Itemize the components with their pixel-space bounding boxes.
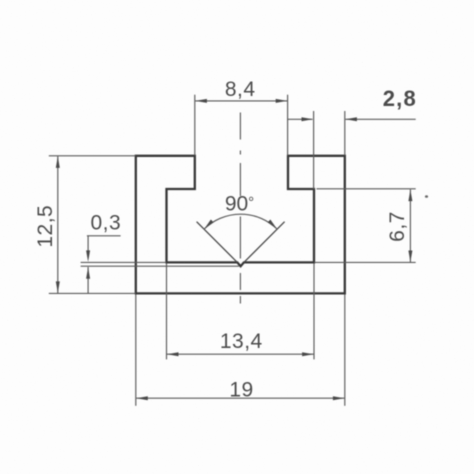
scan speck xyxy=(425,195,428,198)
extension line bottom for 12,5 xyxy=(49,292,136,294)
upper arrow stem for 0,3 xyxy=(87,236,89,252)
V-groove right flank line xyxy=(244,222,285,263)
extension line right for 19 xyxy=(344,295,346,406)
dimension value 6,7 xyxy=(386,211,409,242)
arrowhead 13,4 left xyxy=(167,352,179,356)
extension line right of slot width 8,4 xyxy=(287,95,289,156)
dimension line 12,5 xyxy=(57,156,59,293)
dimension line 6,7 xyxy=(409,190,411,263)
extension line left for 13,4 xyxy=(166,264,168,360)
angle dimension arc 90 degrees xyxy=(204,214,278,229)
dimension value 12,5 xyxy=(34,205,57,248)
arrowhead 6,7 top xyxy=(408,190,412,202)
arrowhead 0,3 upper xyxy=(86,250,90,262)
extension line top for 6,7 xyxy=(317,188,416,190)
centre line dash 5 xyxy=(239,273,241,290)
extension line right for 13,4 xyxy=(313,264,315,360)
dimension line 19 xyxy=(136,397,344,399)
lower arrow stem for 0,3 xyxy=(87,267,89,293)
centre line dash 4 xyxy=(239,217,241,259)
extension line outer edge for 2,8 xyxy=(344,111,346,155)
centre line dash 2 xyxy=(239,151,241,155)
centre line dash 6 xyxy=(239,296,241,304)
extension line inner wall for 2,8 xyxy=(313,111,315,189)
V-groove left flank line xyxy=(197,222,238,263)
arrowhead 8,4 right xyxy=(276,99,288,103)
extension line top for 12,5 xyxy=(49,155,136,157)
arrowhead 2,8 right xyxy=(345,117,357,121)
arrowhead angle arc right xyxy=(268,220,279,231)
dimension line 8,4 xyxy=(195,100,287,102)
centre line dash 1 xyxy=(239,113,241,140)
arrowhead angle arc left xyxy=(203,220,214,231)
arrowhead 12,5 bottom xyxy=(56,281,60,293)
arrowhead 6,7 bottom xyxy=(408,251,412,263)
arrowhead 8,4 left xyxy=(195,99,207,103)
leader shelf under 0,3 xyxy=(87,235,121,237)
T-slot profile outline xyxy=(136,156,345,294)
arrowhead 19 left xyxy=(136,396,148,400)
V-tip level line xyxy=(81,265,239,267)
dimension leader right for 2,8 xyxy=(345,118,415,120)
groove floor level line left xyxy=(81,261,166,263)
arrowhead 13,4 right xyxy=(302,352,314,356)
extension line left of slot width 8,4 xyxy=(194,95,196,156)
arrowhead 19 right xyxy=(333,396,345,400)
groove floor level line right xyxy=(314,261,415,263)
arrowhead 0,3 lower xyxy=(86,267,90,279)
centre line dash 3 xyxy=(239,163,241,196)
extension line left for 19 xyxy=(135,295,137,406)
dimension leader left for 2,8 xyxy=(288,118,313,120)
dimension line 13,4 xyxy=(167,353,314,355)
arrowhead 12,5 top xyxy=(56,156,60,168)
arrowhead 2,8 left xyxy=(302,117,314,121)
